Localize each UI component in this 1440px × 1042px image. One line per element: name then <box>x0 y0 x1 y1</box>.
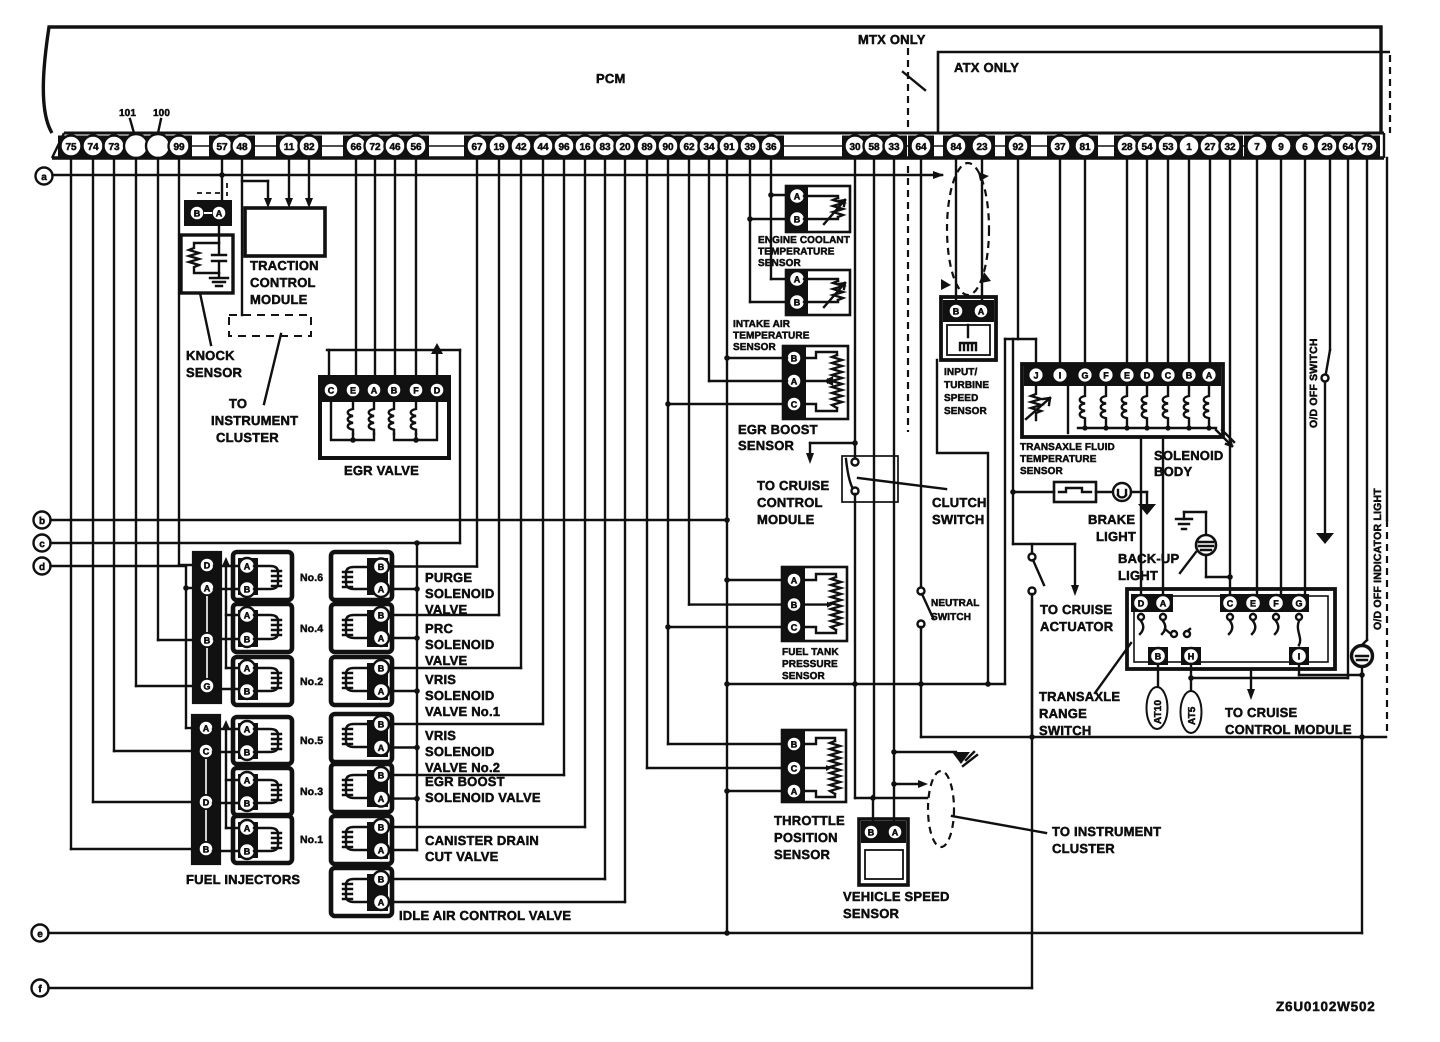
wire EGRB B to pin 96 <box>389 158 564 775</box>
svg-text:No.3: No.3 <box>300 786 323 798</box>
wire pin 75 to injector bar2 B <box>71 158 197 849</box>
pin 42 <box>511 136 532 157</box>
pin 36 <box>761 136 782 157</box>
pin 32 <box>1220 136 1241 157</box>
svg-text:A: A <box>244 562 251 572</box>
svg-text:83: 83 <box>599 142 611 153</box>
PCM right edge drop wire <box>1386 158 1388 736</box>
svg-text:A: A <box>244 824 251 834</box>
svg-text:75: 75 <box>65 142 77 153</box>
svg-text:ENGINE COOLANT: ENGINE COOLANT <box>758 235 850 246</box>
svg-text:No.4: No.4 <box>300 623 323 635</box>
ground at neutral-VSS area <box>952 752 977 766</box>
wire solenoid D/A to TRS <box>1141 437 1163 595</box>
wire row e <box>49 932 1363 934</box>
injector No.2 <box>233 657 323 705</box>
svg-text:D: D <box>1144 371 1151 381</box>
svg-text:D: D <box>203 798 210 808</box>
svg-text:84: 84 <box>950 142 962 153</box>
svg-text:56: 56 <box>410 142 422 153</box>
canister drain cut valve <box>331 816 392 864</box>
svg-text:46: 46 <box>389 142 401 153</box>
svg-text:c: c <box>39 539 45 550</box>
knock sensor KS <box>181 226 233 293</box>
wire pin 30 clutch switch branch <box>806 158 858 464</box>
AT10 connector <box>1147 687 1168 729</box>
wire pin 32 to TRS C <box>1229 158 1231 595</box>
svg-text:A: A <box>244 611 251 621</box>
pin 84 <box>946 136 967 157</box>
svg-text:C: C <box>791 764 798 774</box>
pin 34 <box>699 136 720 157</box>
svg-text:D: D <box>434 386 441 396</box>
wire pin 58 to VSS B <box>870 158 876 825</box>
svg-text:20: 20 <box>619 142 631 153</box>
svg-text:MTX ONLY: MTX ONLY <box>858 32 926 47</box>
svg-text:THROTTLE: THROTTLE <box>774 813 845 828</box>
svg-text:B: B <box>1186 371 1193 381</box>
pin 19 <box>489 136 510 157</box>
svg-text:No.2: No.2 <box>300 676 323 688</box>
shield dashes at knock sensor <box>197 183 227 196</box>
svg-text:TEMPERATURE: TEMPERATURE <box>733 331 810 342</box>
svg-text:B: B <box>378 664 385 674</box>
svg-text:62: 62 <box>683 142 695 153</box>
svg-text:64: 64 <box>915 142 927 153</box>
pin 100 blank <box>146 134 170 158</box>
wire pin 37 to solenoid I <box>1059 158 1061 364</box>
svg-text:PCM: PCM <box>596 71 626 86</box>
svg-text:SENSOR: SENSOR <box>843 906 900 921</box>
intake air temperature sensor label <box>733 319 810 353</box>
fuel injector connector bar 1 <box>194 553 220 702</box>
svg-text:ACTUATOR: ACTUATOR <box>1040 619 1114 634</box>
svg-text:A: A <box>378 634 385 644</box>
EGR bottom bars <box>331 403 437 443</box>
svg-text:B: B <box>378 720 385 730</box>
fuel tank pressure sensor <box>782 567 847 641</box>
wire EGR D feed from node c riser <box>431 343 460 543</box>
PCM module box <box>43 27 1381 133</box>
pin 72 <box>365 136 386 157</box>
svg-text:SENSOR: SENSOR <box>738 438 795 453</box>
svg-text:23: 23 <box>976 142 988 153</box>
pin 54 <box>1137 136 1158 157</box>
pin 89 <box>637 136 658 157</box>
svg-text:TURBINE: TURBINE <box>944 380 989 391</box>
svg-text:36: 36 <box>765 142 777 153</box>
solenoid body corner arrow <box>1216 430 1234 446</box>
svg-text:SWITCH: SWITCH <box>932 512 984 527</box>
svg-text:30: 30 <box>849 142 861 153</box>
wire bar1 A to No6 B <box>214 588 240 590</box>
wire PRC B to pin 19 <box>389 158 499 615</box>
svg-text:67: 67 <box>471 142 483 153</box>
wire pin 6 to TRS G <box>1304 158 1306 595</box>
svg-text:CLUTCH: CLUTCH <box>932 495 987 510</box>
svg-text:F: F <box>413 386 419 396</box>
solenoid body label <box>1154 448 1224 479</box>
wire pin 92 distribution <box>1005 158 1075 544</box>
pin 101 blank <box>124 134 148 158</box>
svg-text:44: 44 <box>537 142 549 153</box>
svg-text:B: B <box>378 823 385 833</box>
svg-text:99: 99 <box>173 142 185 153</box>
svg-text:1: 1 <box>1186 142 1192 153</box>
pin 92 <box>1008 136 1029 157</box>
input/turbine speed sensor label <box>944 367 989 417</box>
wire pin 89 to TPS C <box>647 158 786 768</box>
wire pin 28 to solenoid E <box>1126 158 1128 364</box>
svg-text:79: 79 <box>1361 142 1373 153</box>
svg-text:A: A <box>378 794 385 804</box>
svg-text:B: B <box>378 875 385 885</box>
EGR valve <box>320 377 449 458</box>
pin 39 <box>740 136 761 157</box>
pin 64b <box>1338 136 1359 157</box>
svg-text:D: D <box>204 561 211 571</box>
engine coolant temperature sensor <box>786 186 850 232</box>
injector No.4 <box>233 604 323 652</box>
svg-text:PRESSURE: PRESSURE <box>782 659 838 670</box>
injector No.6 <box>233 552 323 600</box>
svg-text:91: 91 <box>723 142 735 153</box>
svg-text:BACK-UP: BACK-UP <box>1118 551 1179 566</box>
pin 58 <box>864 136 885 157</box>
wire pin 11 to TCM <box>285 158 293 208</box>
svg-text:B: B <box>194 209 201 219</box>
engine coolant temperature sensor label <box>758 235 850 269</box>
wire pin 100 to injector bar1 B <box>158 158 200 640</box>
svg-text:B: B <box>794 215 801 225</box>
svg-text:32: 32 <box>1224 142 1236 153</box>
svg-text:B: B <box>244 635 251 645</box>
svg-text:A: A <box>203 724 210 734</box>
AT5 connector <box>1181 691 1202 733</box>
neutral switch label <box>931 598 979 623</box>
band black segments <box>58 136 1380 158</box>
wire pin 82 to TCM <box>305 158 313 208</box>
wire pin 54 to solenoid D <box>1146 158 1148 364</box>
node b <box>34 512 51 529</box>
wire idle B to pin 83 <box>389 158 605 879</box>
intake air temperature sensor <box>786 270 850 315</box>
svg-text:C: C <box>328 386 335 396</box>
svg-text:SOLENOID VALVE: SOLENOID VALVE <box>425 790 541 805</box>
knock sensor label <box>186 293 243 380</box>
back-up light circuit <box>1176 512 1233 580</box>
svg-text:82: 82 <box>303 142 315 153</box>
node d <box>34 558 51 575</box>
svg-text:CUT VALVE: CUT VALVE <box>425 849 499 864</box>
svg-text:TRACTION: TRACTION <box>250 258 319 273</box>
pin 91 <box>719 136 740 157</box>
wire TRS B to AT10 <box>1157 664 1159 688</box>
wire pin 33 to VSS A <box>891 158 956 825</box>
svg-text:96: 96 <box>558 142 570 153</box>
transaxle fluid temperature sensor label <box>1020 442 1115 477</box>
purge solenoid valve <box>331 552 392 600</box>
svg-text:VALVE: VALVE <box>425 653 468 668</box>
solenoid coils in body <box>1078 387 1216 431</box>
long junction wire to right column <box>921 734 1386 740</box>
svg-text:SPEED: SPEED <box>944 393 978 404</box>
svg-text:B: B <box>794 298 801 308</box>
pin 11 <box>279 136 300 157</box>
pin 46 <box>385 136 406 157</box>
svg-text:H: H <box>1188 652 1195 662</box>
svg-text:A: A <box>1206 371 1213 381</box>
wire TRS I to O/D lamp rail <box>1299 664 1362 675</box>
svg-text:NEUTRAL: NEUTRAL <box>931 598 979 609</box>
ATX right dashed edge <box>1389 55 1391 133</box>
wire row f <box>49 600 1033 988</box>
wire pin 53 to solenoid C <box>1167 158 1169 364</box>
svg-text:39: 39 <box>744 142 756 153</box>
pin 37 <box>1050 136 1071 157</box>
wire pin 23 to ITS A <box>981 158 983 303</box>
svg-text:48: 48 <box>236 142 248 153</box>
wire pin 90 to FTP C / TPS B <box>665 158 786 744</box>
pin 81 <box>1075 136 1096 157</box>
to instrument cluster dashed box <box>229 315 311 404</box>
svg-text:TO INSTRUMENT: TO INSTRUMENT <box>1052 824 1161 839</box>
MTX dashed boundary lower <box>907 166 909 432</box>
svg-text:INSTRUMENT: INSTRUMENT <box>211 413 298 428</box>
wire bar2 B to No1 B <box>213 850 240 852</box>
svg-text:FUEL TANK: FUEL TANK <box>782 647 839 658</box>
svg-text:D: D <box>1138 599 1145 609</box>
svg-text:SENSOR: SENSOR <box>186 365 243 380</box>
svg-text:101: 101 <box>119 108 136 119</box>
shield oval at ITS <box>941 163 991 295</box>
clutch switch <box>842 456 946 684</box>
svg-text:33: 33 <box>888 142 900 153</box>
svg-text:C: C <box>791 400 798 410</box>
pin 96 <box>554 136 575 157</box>
injector No.5 <box>233 717 323 764</box>
solenoid body assembly <box>1022 364 1223 437</box>
svg-text:AT5: AT5 <box>1187 706 1198 725</box>
svg-text:e: e <box>37 929 43 940</box>
wire pin 101 to injector bar1 G <box>136 158 200 686</box>
svg-text:54: 54 <box>1141 142 1153 153</box>
wire pin 62 to FTP B <box>689 158 786 605</box>
svg-text:A: A <box>1160 599 1167 609</box>
svg-text:57: 57 <box>216 142 228 153</box>
svg-text:SOLENOID: SOLENOID <box>425 637 495 652</box>
svg-text:B: B <box>378 562 385 572</box>
pin 9 <box>1271 136 1292 157</box>
svg-text:53: 53 <box>1162 142 1174 153</box>
to instrument cluster label right <box>1052 824 1161 856</box>
svg-text:TRANSAXLE: TRANSAXLE <box>1039 689 1120 704</box>
O/D off indicator light lamp <box>1352 646 1373 934</box>
wire pin 34 to TPS A and row e <box>709 158 787 381</box>
svg-text:SOLENOID: SOLENOID <box>425 688 495 703</box>
pin 6 <box>1295 136 1316 157</box>
svg-text:VRIS: VRIS <box>425 672 456 687</box>
transaxle range switch label <box>1039 643 1131 738</box>
svg-text:72: 72 <box>369 142 381 153</box>
node f <box>32 980 49 997</box>
transaxle fluid temperature sensor resistor <box>1026 387 1050 420</box>
svg-text:B: B <box>203 845 210 855</box>
pin 57 <box>212 136 233 157</box>
wire canister B to pin 16 <box>389 158 585 827</box>
svg-text:No.1: No.1 <box>300 834 323 846</box>
brake light label <box>1088 512 1136 544</box>
solenoid valve A common rail from node c <box>389 543 420 850</box>
VRIS1 label <box>425 672 500 719</box>
wire pin 66 to EGR C/E <box>327 158 460 377</box>
svg-text:VALVE No.1: VALVE No.1 <box>425 704 500 719</box>
svg-text:A: A <box>378 687 385 697</box>
svg-text:C: C <box>791 623 798 633</box>
wire pin 7 to TRS E <box>1256 158 1258 595</box>
wire row c <box>51 540 461 546</box>
svg-text:A: A <box>244 776 251 786</box>
svg-text:C: C <box>203 747 210 757</box>
svg-text:A: A <box>791 787 798 797</box>
pin 90 <box>658 136 679 157</box>
to cruise control module arrow bottom <box>1247 669 1255 700</box>
back-up light label <box>1118 551 1179 583</box>
svg-text:B: B <box>953 307 960 317</box>
wire pin 64b to TRS H <box>1347 158 1349 678</box>
brake light circuit <box>1013 482 1147 504</box>
svg-text:F: F <box>1103 371 1109 381</box>
EGR boost solenoid valve label <box>425 774 541 805</box>
EGR boost sensor label <box>738 422 818 453</box>
wire bar2 C to No5 B <box>213 751 240 753</box>
svg-text:58: 58 <box>868 142 880 153</box>
svg-text:A: A <box>378 898 385 908</box>
wire pin 56 to EGR F <box>415 158 417 377</box>
svg-text:I: I <box>1059 371 1062 381</box>
wire bar1 G to No2 B <box>214 688 240 690</box>
svg-text:A: A <box>378 846 385 856</box>
wire purge B to pin 67 <box>389 158 477 567</box>
wire pin 27 to solenoid A <box>1209 158 1211 364</box>
pin 23 <box>972 136 993 157</box>
svg-text:73: 73 <box>108 142 120 153</box>
pin 53 <box>1158 136 1179 157</box>
svg-text:9: 9 <box>1278 142 1284 153</box>
vehicle speed sensor <box>859 819 908 885</box>
pin 29 <box>1317 136 1338 157</box>
svg-text:EGR BOOST: EGR BOOST <box>738 422 818 437</box>
svg-text:27: 27 <box>1204 142 1216 153</box>
svg-text:74: 74 <box>87 142 99 153</box>
PRC solenoid valve <box>331 604 392 652</box>
pin 30 <box>845 136 866 157</box>
svg-text:B: B <box>378 611 385 621</box>
svg-text:A: A <box>204 584 211 594</box>
pin 16 <box>575 136 596 157</box>
svg-text:29: 29 <box>1321 142 1333 153</box>
svg-text:16: 16 <box>579 142 591 153</box>
svg-text:PURGE: PURGE <box>425 570 472 585</box>
pin 64a <box>911 136 932 157</box>
svg-text:CANISTER DRAIN: CANISTER DRAIN <box>425 833 539 848</box>
svg-text:B: B <box>1155 652 1162 662</box>
EGR coil 4 <box>411 403 416 434</box>
svg-text:19: 19 <box>493 142 505 153</box>
svg-text:A: A <box>794 192 801 202</box>
wire row d to injector A rail <box>51 566 200 728</box>
svg-text:b: b <box>39 516 45 527</box>
EGR coil 1 <box>348 403 353 434</box>
svg-text:CLUSTER: CLUSTER <box>1052 841 1115 856</box>
pin 82 <box>299 136 320 157</box>
node c <box>34 535 51 552</box>
EGR boost solenoid valve <box>331 764 392 812</box>
MTX/ATX dashed boundary <box>907 48 909 131</box>
wire pin 1 to solenoid B <box>1188 158 1190 364</box>
svg-text:SENSOR: SENSOR <box>774 847 831 862</box>
svg-text:81: 81 <box>1079 142 1091 153</box>
wire VSS junction to shield <box>855 684 927 798</box>
svg-text:SENSOR: SENSOR <box>733 342 777 353</box>
pin 44 <box>533 136 554 157</box>
input/turbine speed sensor <box>941 297 996 360</box>
pin 99 <box>169 136 190 157</box>
svg-text:SENSOR: SENSOR <box>944 406 988 417</box>
svg-text:G: G <box>1081 371 1088 381</box>
svg-text:CONTROL: CONTROL <box>250 275 316 290</box>
idle air control valve <box>331 868 392 916</box>
svg-text:G: G <box>1295 599 1302 609</box>
wire pin 74 to injector bar2 D <box>93 158 197 802</box>
svg-text:A: A <box>791 576 798 586</box>
wire pin 48 branch <box>242 158 272 315</box>
wire pin 84 to ITS B <box>955 158 957 303</box>
svg-text:A: A <box>216 209 223 219</box>
svg-text:37: 37 <box>1054 142 1066 153</box>
svg-text:6: 6 <box>1302 142 1308 153</box>
to cruise actuator label <box>1040 602 1114 634</box>
throttle position sensor label <box>774 813 845 862</box>
svg-text:O/D OFF SWITCH: O/D OFF SWITCH <box>1308 338 1320 428</box>
svg-text:C: C <box>1227 599 1234 609</box>
svg-text:B: B <box>791 740 798 750</box>
svg-text:POSITION: POSITION <box>774 830 838 845</box>
EGR coil 3 <box>389 403 394 434</box>
svg-text:A: A <box>378 585 385 595</box>
pin 62 <box>679 136 700 157</box>
O/D off switch <box>1316 158 1334 544</box>
svg-text:d: d <box>39 562 45 573</box>
svg-text:B: B <box>791 600 798 610</box>
svg-text:TEMPERATURE: TEMPERATURE <box>1020 454 1097 465</box>
svg-text:CONTROL MODULE: CONTROL MODULE <box>1225 722 1352 737</box>
svg-text:B: B <box>391 386 398 396</box>
svg-text:No.5: No.5 <box>300 735 323 747</box>
svg-text:VEHICLE SPEED: VEHICLE SPEED <box>843 889 950 904</box>
svg-text:66: 66 <box>350 142 362 153</box>
svg-text:A: A <box>244 725 251 735</box>
svg-text:A: A <box>378 743 385 753</box>
svg-text:B: B <box>244 748 251 758</box>
injector No.3 <box>233 768 323 815</box>
purge solenoid valve label <box>425 570 495 617</box>
pin 101 label <box>119 108 136 133</box>
svg-text:VALVE No.2: VALVE No.2 <box>425 760 500 775</box>
svg-text:VRIS: VRIS <box>425 728 456 743</box>
wire pin 72 to EGR A <box>374 158 376 377</box>
svg-text:LIGHT: LIGHT <box>1118 568 1158 583</box>
